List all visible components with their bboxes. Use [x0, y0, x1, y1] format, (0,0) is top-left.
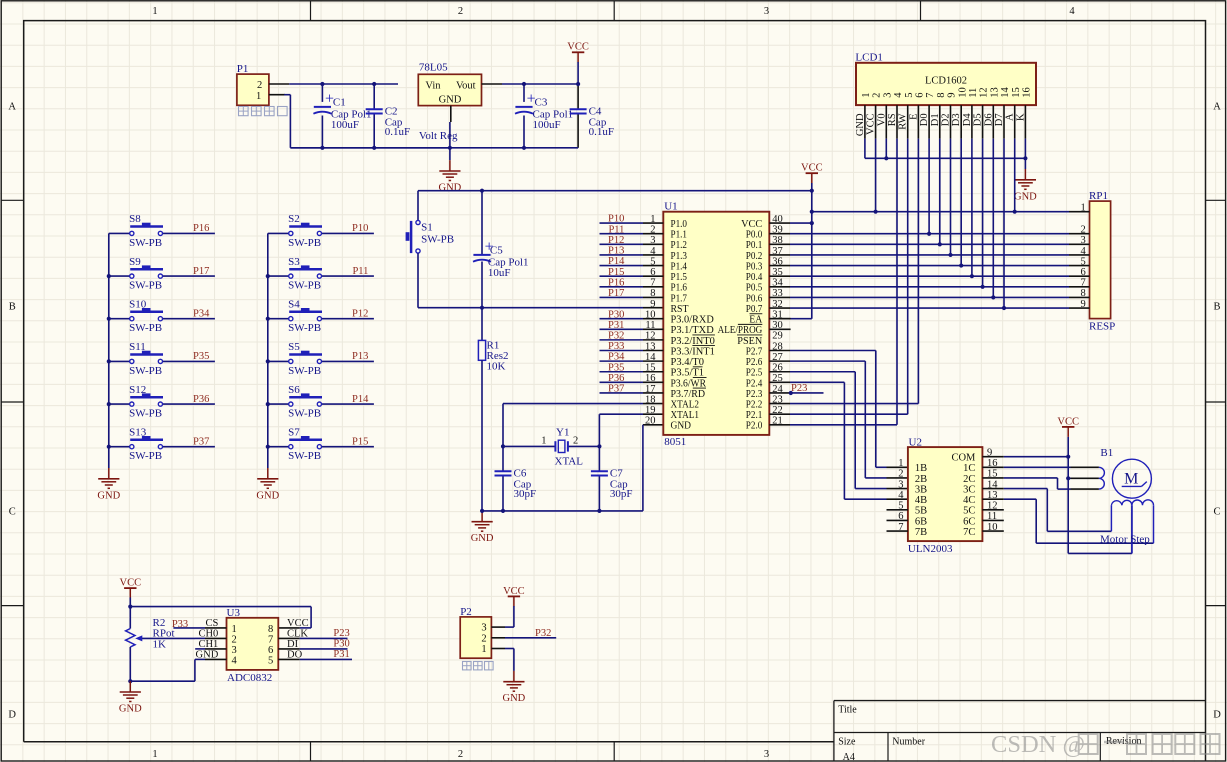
svg-text:1B: 1B — [915, 463, 927, 474]
resistor pack RP1 body — [1090, 201, 1111, 319]
ground symbol below P2 — [513, 671, 515, 681]
svg-text:4: 4 — [893, 92, 904, 98]
svg-text:Y1: Y1 — [556, 427, 569, 439]
svg-text:SW-PB: SW-PB — [288, 322, 321, 334]
svg-text:P14: P14 — [352, 394, 369, 405]
svg-text:3: 3 — [764, 749, 769, 760]
svg-text:B: B — [9, 302, 16, 313]
svg-text:D2: D2 — [941, 113, 952, 126]
svg-text:GND: GND — [97, 490, 120, 501]
svg-text:P1.2: P1.2 — [671, 240, 688, 251]
svg-text:P0.4: P0.4 — [746, 272, 763, 283]
svg-text:K: K — [1015, 113, 1026, 121]
svg-text:D: D — [8, 710, 16, 721]
svg-text:P34: P34 — [193, 308, 210, 319]
svg-text:1K: 1K — [153, 639, 167, 651]
svg-text:8: 8 — [936, 93, 947, 98]
wire CLK with net P23 — [278, 637, 299, 639]
svg-text:1: 1 — [232, 624, 237, 635]
svg-text:P1.0: P1.0 — [671, 219, 688, 230]
svg-text:A: A — [1213, 102, 1221, 113]
wire EA pin31 to VCC — [769, 318, 790, 320]
wire P2.4 to ULN 4B — [769, 381, 790, 383]
svg-text:4: 4 — [1081, 246, 1087, 257]
svg-text:1: 1 — [152, 749, 157, 760]
svg-text:P0.6: P0.6 — [746, 293, 763, 304]
svg-text:P2.0: P2.0 — [746, 421, 763, 432]
svg-text:2B: 2B — [915, 474, 927, 485]
svg-text:P3.2/INT0: P3.2/INT0 — [671, 336, 715, 347]
svg-text:30pF: 30pF — [610, 488, 633, 500]
switch S11 — [109, 360, 130, 362]
svg-text:2: 2 — [257, 80, 262, 91]
svg-text:P32: P32 — [608, 330, 624, 341]
svg-text:COM: COM — [951, 453, 976, 464]
U1 unconnected pins 29 30 stubs — [769, 318, 790, 320]
switch S1 — [417, 191, 419, 221]
svg-text:S11: S11 — [129, 341, 146, 353]
svg-text:P13: P13 — [352, 351, 368, 362]
wire CH1 stub — [195, 648, 205, 650]
svg-text:Number: Number — [892, 736, 925, 747]
svg-text:9: 9 — [1081, 299, 1086, 310]
svg-text:2: 2 — [232, 634, 237, 645]
svg-text:6: 6 — [915, 93, 926, 98]
svg-text:5C: 5C — [963, 506, 975, 517]
svg-text:P3.0/RXD: P3.0/RXD — [671, 315, 715, 326]
svg-text:S6: S6 — [288, 384, 300, 396]
svg-text:GND: GND — [1014, 191, 1037, 202]
svg-text:3: 3 — [232, 645, 237, 656]
label dianyuanjiekou (power port) — [239, 107, 249, 116]
svg-text:P11: P11 — [352, 266, 368, 277]
svg-text:P0.0: P0.0 — [746, 230, 763, 241]
svg-text:RW: RW — [898, 113, 909, 129]
svg-text:RST: RST — [671, 304, 690, 315]
svg-text:4B: 4B — [915, 495, 927, 506]
svg-text:GND: GND — [671, 421, 692, 432]
svg-text:0.1uF: 0.1uF — [385, 126, 410, 138]
potentiometer R2 RPot — [129, 607, 131, 629]
svg-text:ALE/PROG: ALE/PROG — [718, 325, 763, 336]
svg-text:13: 13 — [989, 87, 1000, 98]
svg-text:A4: A4 — [843, 752, 855, 762]
svg-text:GND: GND — [503, 693, 526, 704]
svg-text:2: 2 — [458, 6, 463, 17]
svg-text:C: C — [9, 507, 16, 518]
wire S1 bottom to RST — [417, 253, 419, 308]
svg-text:2: 2 — [573, 435, 578, 446]
svg-text:S2: S2 — [288, 213, 300, 225]
svg-text:SW-PB: SW-PB — [421, 233, 454, 245]
ground symbol below potentiometer — [129, 681, 131, 691]
svg-text:10K: 10K — [487, 361, 506, 373]
svg-text:12: 12 — [979, 87, 990, 98]
wire 4C to coil right — [982, 498, 1003, 500]
svg-text:V0: V0 — [876, 113, 887, 126]
svg-text:P32: P32 — [535, 628, 551, 639]
svg-text:SW-PB: SW-PB — [129, 408, 162, 420]
svg-text:P2.5: P2.5 — [746, 368, 763, 379]
wire P2.0 to LCD RS — [769, 424, 790, 426]
svg-text:C5: C5 — [490, 244, 503, 256]
svg-text:SW-PB: SW-PB — [129, 450, 162, 462]
svg-text:6B: 6B — [915, 516, 927, 527]
svg-text:EA: EA — [749, 315, 762, 326]
svg-text:B1: B1 — [1100, 447, 1113, 459]
svg-text:3: 3 — [1081, 235, 1086, 246]
svg-text:ULN2003: ULN2003 — [908, 543, 953, 555]
svg-text:S12: S12 — [129, 384, 146, 396]
button column 1 ground rail — [108, 233, 110, 468]
svg-text:P0.5: P0.5 — [746, 283, 763, 294]
svg-text:2: 2 — [872, 93, 883, 98]
svg-text:P1: P1 — [237, 63, 249, 75]
svg-text:2: 2 — [458, 749, 463, 760]
svg-text:D4: D4 — [962, 113, 973, 127]
wire GND pin to ground net — [195, 658, 205, 660]
svg-text:GND: GND — [855, 113, 866, 136]
svg-text:6: 6 — [1081, 267, 1086, 278]
LCD data wires D0-D7 — [928, 139, 930, 234]
svg-text:P23: P23 — [333, 628, 349, 639]
ground symbol below column 1 — [108, 468, 110, 478]
svg-text:S13: S13 — [129, 426, 147, 438]
LCD pin stubs and names — [864, 105, 866, 139]
svg-text:1: 1 — [898, 458, 903, 469]
svg-text:5: 5 — [268, 655, 273, 666]
svg-text:7: 7 — [268, 634, 273, 645]
svg-text:VCC: VCC — [741, 219, 762, 230]
wire VCC net to reset circuit — [418, 190, 812, 192]
svg-text:P16: P16 — [608, 277, 624, 288]
svg-text:P1.3: P1.3 — [671, 251, 688, 262]
U1 left port wires with net labels — [600, 222, 644, 224]
ground symbol below crystal rail — [481, 511, 483, 521]
svg-text:SW-PB: SW-PB — [288, 408, 321, 420]
capacitor C6 — [502, 446, 504, 471]
svg-text:P16: P16 — [193, 223, 209, 234]
svg-text:Title: Title — [838, 705, 857, 716]
svg-text:1: 1 — [256, 91, 261, 102]
crystal Y1 — [503, 445, 555, 447]
svg-text:D6: D6 — [983, 113, 994, 126]
svg-text:P10: P10 — [352, 223, 368, 234]
svg-text:P2: P2 — [460, 606, 472, 618]
svg-text:P17: P17 — [608, 288, 624, 299]
svg-text:P1.4: P1.4 — [671, 261, 688, 272]
wire P1 pin2 to top rail — [269, 83, 289, 85]
svg-text:SW-PB: SW-PB — [129, 365, 162, 377]
svg-text:VCC: VCC — [1057, 416, 1079, 427]
svg-text:10: 10 — [957, 87, 968, 98]
wire 3C to coil left — [982, 488, 1003, 490]
svg-text:CSDN @: CSDN @ — [991, 731, 1085, 758]
svg-text:P37: P37 — [608, 384, 624, 395]
wire COM to VCC — [982, 456, 1003, 458]
svg-text:C1: C1 — [333, 96, 346, 108]
svg-text:5: 5 — [904, 93, 915, 98]
svg-text:100uF: 100uF — [533, 119, 561, 131]
svg-text:1C: 1C — [963, 463, 975, 474]
svg-text:B: B — [1213, 302, 1220, 313]
svg-text:SW-PB: SW-PB — [288, 237, 321, 249]
svg-text:P3.6/WR: P3.6/WR — [671, 378, 707, 389]
svg-text:P3.4/T0: P3.4/T0 — [671, 357, 705, 368]
svg-text:S10: S10 — [129, 298, 147, 310]
svg-text:P12: P12 — [352, 308, 368, 319]
svg-text:U2: U2 — [909, 436, 922, 448]
svg-text:1: 1 — [1081, 203, 1086, 214]
svg-text:XTAL1: XTAL1 — [671, 410, 700, 421]
svg-text:U3: U3 — [227, 607, 241, 619]
regulator 78L05 — [418, 74, 481, 105]
svg-text:3: 3 — [882, 93, 893, 98]
svg-text:P14: P14 — [608, 256, 625, 267]
U2 unconnected input stubs 5B 6B 7B — [887, 509, 908, 511]
svg-text:78L05: 78L05 — [419, 62, 448, 74]
wire P2.1 to LCD RW — [769, 413, 790, 415]
ground symbol below 78L05 — [449, 148, 451, 160]
svg-text:VCC: VCC — [866, 113, 877, 135]
svg-text:P3.1/TXD: P3.1/TXD — [671, 325, 715, 336]
svg-text:RP1: RP1 — [1089, 190, 1108, 202]
wire P23 net stub pin24 — [769, 392, 790, 394]
svg-text:A: A — [8, 102, 16, 113]
svg-text:Vout: Vout — [456, 80, 476, 91]
svg-text:Motor Step: Motor Step — [1100, 533, 1150, 545]
svg-text:ADC0832: ADC0832 — [227, 672, 272, 684]
svg-text:P37: P37 — [193, 436, 209, 447]
svg-text:3: 3 — [481, 623, 486, 634]
svg-text:RESP: RESP — [1089, 320, 1115, 332]
svg-text:2: 2 — [1081, 225, 1086, 236]
svg-text:RS: RS — [887, 113, 898, 126]
capacitor C4 — [577, 84, 579, 109]
svg-text:P0.3: P0.3 — [746, 261, 763, 272]
svg-text:2: 2 — [898, 469, 903, 480]
capacitor C2 — [373, 84, 375, 109]
svg-text:P1.6: P1.6 — [671, 283, 688, 294]
svg-text:8: 8 — [268, 624, 273, 635]
svg-text:4: 4 — [898, 490, 904, 501]
svg-text:6: 6 — [268, 645, 273, 656]
title block — [834, 700, 1206, 702]
svg-text:7: 7 — [1081, 278, 1086, 289]
svg-text:P35: P35 — [193, 351, 209, 362]
svg-text:P1.5: P1.5 — [671, 272, 688, 283]
svg-text:18: 18 — [645, 394, 656, 405]
ground symbol below column 2 — [267, 468, 269, 478]
wire XTAL2 pin18 — [503, 403, 643, 405]
svg-text:S4: S4 — [288, 298, 300, 310]
wire P2 pin1 to ground — [491, 648, 505, 650]
svg-text:P15: P15 — [352, 436, 368, 447]
wire VCC rail to U3 pin8 — [130, 606, 311, 608]
svg-text:P1.1: P1.1 — [671, 230, 688, 241]
switch S10 — [109, 318, 130, 320]
svg-text:30pF: 30pF — [514, 488, 537, 500]
wire P2.7 to ULN 1B — [769, 350, 790, 352]
svg-text:SW-PB: SW-PB — [288, 450, 321, 462]
svg-text:P17: P17 — [193, 266, 209, 277]
capacitor C1 — [321, 84, 323, 102]
U2 unconnected output stubs 5C 6C 7C — [982, 509, 1003, 511]
svg-text:VCC: VCC — [567, 42, 589, 53]
svg-text:14: 14 — [1000, 87, 1011, 98]
svg-text:S1: S1 — [421, 222, 433, 234]
svg-text:1: 1 — [541, 435, 546, 446]
svg-text:P12: P12 — [608, 235, 624, 246]
svg-text:SW-PB: SW-PB — [288, 280, 321, 292]
switch S7 — [268, 446, 289, 448]
svg-text:6C: 6C — [963, 516, 975, 527]
LCD control wires RS RW E — [896, 139, 898, 425]
svg-text:GND: GND — [471, 533, 494, 544]
wire 78L05 GND pin down — [450, 106, 452, 122]
svg-text:VCC: VCC — [503, 586, 525, 597]
svg-text:P3.5/T1: P3.5/T1 — [671, 368, 705, 379]
svg-text:S3: S3 — [288, 256, 300, 268]
svg-text:M: M — [1124, 470, 1138, 487]
svg-text:S5: S5 — [288, 341, 300, 353]
svg-text:5: 5 — [1081, 256, 1086, 267]
svg-text:P34: P34 — [608, 352, 625, 363]
svg-text:15: 15 — [1011, 87, 1022, 98]
svg-text:P2.7: P2.7 — [746, 346, 763, 357]
svg-text:P2.1: P2.1 — [746, 410, 763, 421]
watermark CSDN — [991, 731, 1220, 758]
switch S13 — [109, 446, 130, 448]
svg-text:P15: P15 — [608, 267, 624, 278]
svg-text:Vin: Vin — [425, 80, 441, 91]
bottom rail wire — [290, 147, 578, 149]
capacitor C3 — [523, 84, 525, 102]
svg-text:E: E — [908, 113, 919, 119]
wire P2 pin3 to VCC — [491, 626, 505, 628]
svg-text:19: 19 — [645, 405, 656, 416]
svg-text:Size: Size — [838, 736, 856, 747]
capacitor C5 — [481, 191, 483, 255]
svg-text:P0.2: P0.2 — [746, 251, 763, 262]
svg-text:P10: P10 — [608, 214, 624, 225]
svg-text:S8: S8 — [129, 213, 141, 225]
svg-text:P11: P11 — [608, 224, 624, 235]
svg-text:U1: U1 — [664, 201, 677, 213]
LCD VCC and backlight wires — [875, 139, 877, 212]
svg-text:P2.3: P2.3 — [746, 389, 763, 400]
switch S9 — [109, 275, 130, 277]
wire VCC to motor center tap — [1068, 477, 1070, 479]
svg-text:8: 8 — [1081, 288, 1086, 299]
svg-text:P3.7/RD: P3.7/RD — [671, 389, 706, 400]
svg-text:XTAL2: XTAL2 — [671, 399, 700, 410]
svg-text:0.1uF: 0.1uF — [589, 126, 614, 138]
svg-text:1: 1 — [861, 93, 872, 98]
svg-text:2C: 2C — [963, 474, 975, 485]
wire P2.2 to LCD E — [769, 403, 790, 405]
connector P2 body — [460, 617, 491, 658]
svg-text:1: 1 — [481, 644, 486, 655]
svg-text:3: 3 — [898, 479, 903, 490]
wire DO with net P31 — [278, 658, 299, 660]
svg-text:8051: 8051 — [664, 436, 686, 448]
connector P1 — [237, 74, 269, 105]
svg-text:S9: S9 — [129, 256, 141, 268]
svg-text:P31: P31 — [333, 649, 349, 660]
svg-text:20: 20 — [645, 416, 656, 427]
svg-text:7: 7 — [925, 93, 936, 98]
wire CH0 to wiper — [195, 637, 205, 639]
switch S5 — [268, 360, 289, 362]
svg-text:XTAL: XTAL — [555, 456, 584, 468]
capacitor C7 — [598, 446, 600, 471]
svg-text:9: 9 — [947, 93, 958, 98]
LCD module LCD1 body — [856, 63, 1036, 105]
switch S12 — [109, 403, 130, 405]
svg-text:4: 4 — [1069, 6, 1075, 17]
LCD ground bus wire — [864, 139, 866, 159]
svg-text:Volt Reg: Volt Reg — [419, 130, 458, 142]
svg-text:SW-PB: SW-PB — [129, 237, 162, 249]
switch S4 — [268, 318, 289, 320]
svg-text:D7: D7 — [994, 113, 1005, 126]
wire CS with net P33 — [173, 627, 205, 629]
op-amp U1 body (8051 MCU) — [663, 212, 769, 435]
svg-text:P3.3/INT1: P3.3/INT1 — [671, 346, 715, 357]
svg-text:9: 9 — [650, 299, 655, 310]
svg-text:29: 29 — [772, 331, 783, 342]
svg-text:A: A — [1005, 113, 1016, 121]
wire VCC to U1 pin40 — [769, 222, 790, 224]
svg-text:4: 4 — [232, 655, 238, 666]
svg-text:16: 16 — [1022, 87, 1033, 98]
svg-text:C: C — [1213, 507, 1220, 518]
svg-text:P36: P36 — [193, 394, 209, 405]
svg-text:P23: P23 — [791, 383, 807, 394]
wire XTAL1 pin19 — [599, 413, 643, 415]
svg-text:P1.7: P1.7 — [671, 293, 688, 304]
svg-text:D3: D3 — [951, 113, 962, 126]
svg-text:3B: 3B — [915, 484, 927, 495]
wire 2C to motor pin3 — [982, 477, 1003, 479]
svg-text:10uF: 10uF — [488, 267, 511, 279]
ADC U3 body — [227, 618, 279, 670]
svg-text:D0: D0 — [919, 113, 930, 126]
svg-text:LCD1: LCD1 — [855, 52, 883, 64]
button column 2 ground rail — [267, 233, 269, 468]
driver U2 ULN2003 body — [908, 447, 983, 541]
svg-text:SW-PB: SW-PB — [129, 322, 162, 334]
svg-text:3: 3 — [764, 6, 769, 17]
svg-text:SW-PB: SW-PB — [288, 365, 321, 377]
svg-text:P36: P36 — [608, 373, 624, 384]
svg-text:P30: P30 — [333, 638, 349, 649]
switch S6 — [268, 403, 289, 405]
svg-text:GND: GND — [439, 94, 462, 105]
svg-text:P2.4: P2.4 — [746, 378, 763, 389]
wire GND pin20 — [643, 424, 663, 426]
svg-text:P33: P33 — [608, 341, 624, 352]
switch S3 — [268, 275, 289, 277]
svg-text:P0.1: P0.1 — [746, 240, 763, 251]
svg-text:GND: GND — [256, 490, 279, 501]
label jieshoutou (IR receiver) — [463, 662, 472, 670]
svg-text:P0.7: P0.7 — [746, 304, 763, 315]
svg-text:4C: 4C — [963, 495, 975, 506]
svg-text:2: 2 — [481, 633, 486, 644]
wire DI with net P30 — [278, 648, 299, 650]
